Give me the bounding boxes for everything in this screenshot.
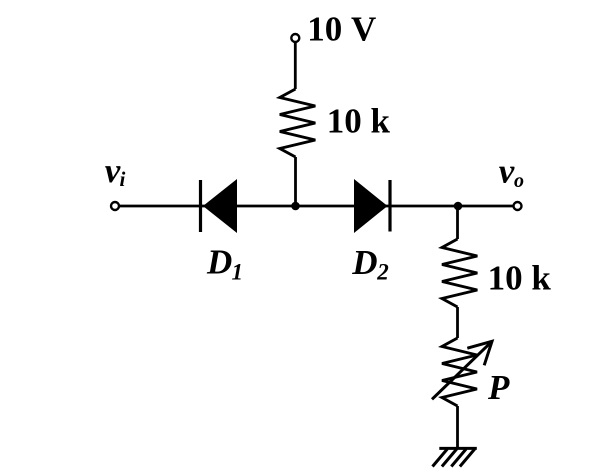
wire top terminal to resistor xyxy=(294,43,297,89)
svg-text:v: v xyxy=(499,151,515,190)
svg-text:P: P xyxy=(487,368,510,407)
svg-text:D: D xyxy=(206,243,232,282)
svg-text:10 k: 10 k xyxy=(327,101,391,140)
svg-text:10 V: 10 V xyxy=(307,9,376,48)
svg-text:D: D xyxy=(351,243,377,282)
wire node B down xyxy=(456,206,459,239)
wire potentiometer to ground xyxy=(456,406,459,448)
wire resistor to center node xyxy=(294,157,297,206)
potentiometer arrow xyxy=(432,341,492,399)
resistor 10k top xyxy=(280,89,316,157)
wire main horizontal xyxy=(119,205,513,208)
diode D2 xyxy=(354,179,388,233)
svg-text:2: 2 xyxy=(376,260,389,285)
potentiometer P zigzag xyxy=(442,338,477,406)
terminal vi xyxy=(111,202,119,210)
terminal vo xyxy=(514,202,522,210)
terminal 10V supply xyxy=(291,34,299,42)
wire resistor to potentiometer xyxy=(456,307,459,338)
svg-text:o: o xyxy=(514,170,524,192)
svg-text:v: v xyxy=(105,151,121,190)
node B (output junction) xyxy=(454,202,463,211)
svg-text:10 k: 10 k xyxy=(488,259,552,298)
svg-text:1: 1 xyxy=(232,260,244,285)
node A (center junction) xyxy=(291,202,300,211)
diode D1 xyxy=(199,180,202,232)
resistor 10k right xyxy=(442,239,477,307)
svg-text:i: i xyxy=(120,167,126,191)
ground xyxy=(439,447,477,450)
